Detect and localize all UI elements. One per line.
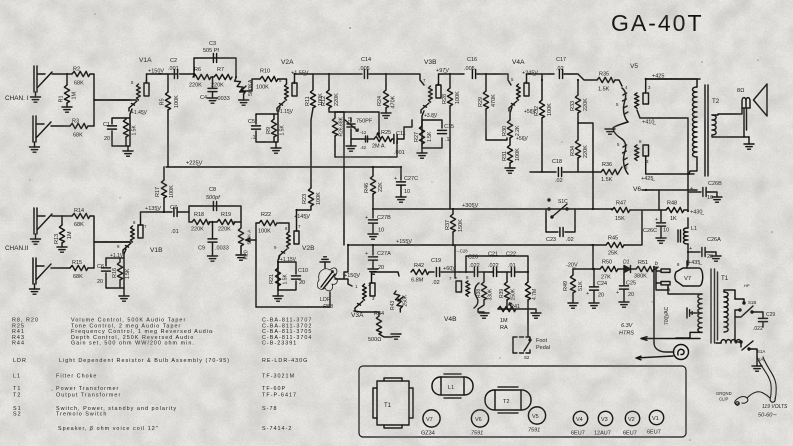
resistor R40 trem (525, 272, 538, 309)
capacitor C25 (616, 273, 636, 308)
resistor R28 (442, 74, 461, 209)
ground V3B cathode (417, 148, 427, 158)
resistor R11 (305, 74, 324, 167)
resistor R15 (70, 260, 88, 280)
wire jack1 to R2 (52, 73, 72, 75)
resistor R21 (269, 262, 289, 290)
capacitor C27A (365, 245, 391, 274)
wire R33 junction to PI (578, 123, 593, 208)
cathode network V1B (106, 249, 126, 288)
capacitor C19 (429, 258, 460, 286)
resistor R3 (70, 119, 88, 139)
resistor R6 (189, 67, 211, 89)
jack J1 input (31, 66, 53, 102)
ground V1B cathode (110, 253, 129, 301)
potentiometer R8 500KA (234, 77, 254, 105)
resistor R23 (302, 167, 322, 206)
resistor R10 (256, 69, 278, 91)
resistor R39 trem (499, 272, 517, 309)
capacitor C11 (392, 120, 412, 156)
resistor R45 (591, 211, 642, 257)
T1 heater winding (716, 340, 741, 347)
jack J3 input (31, 208, 53, 244)
wire phase net top (466, 256, 528, 272)
capacitor C27C (394, 167, 418, 202)
ground R38 (478, 312, 489, 318)
paper noise (0, 0, 1, 1)
tube V2A (277, 59, 309, 111)
wire V5 plate to +425 (646, 79, 700, 93)
wire R22 to V2B grid (277, 223, 289, 232)
wire R15 to bus2 (88, 267, 94, 269)
wire V1A plate up (146, 74, 148, 83)
resistor R36 (601, 162, 622, 183)
wire caps chain (460, 271, 528, 273)
node 6.3V HTRS (619, 323, 700, 340)
resistor R12 (321, 74, 344, 112)
wire LDR bottom line (256, 292, 330, 307)
tube V5 power (616, 63, 651, 122)
resistor R38 trem (476, 272, 494, 312)
resistor R17 (155, 167, 175, 212)
wire jack3 to R14 (52, 215, 72, 217)
resistor R32 (534, 74, 553, 172)
capacitor C17 (556, 57, 597, 80)
tube V7 chassis (421, 410, 440, 437)
node ground clip (716, 391, 770, 405)
L1 chassis (432, 374, 473, 398)
node 119 volts (757, 357, 788, 419)
potentiometer R43 250K (390, 290, 409, 312)
resistor R19 (217, 212, 235, 233)
cathode network V2A (256, 107, 280, 142)
capacitor C27B (365, 209, 391, 239)
capacitor C16 (464, 57, 511, 85)
wire C3 bridge (194, 58, 236, 77)
resistor R24 (377, 74, 397, 109)
capacitor C26C (643, 210, 669, 243)
tube V4B (444, 275, 479, 323)
capacitor C18 (552, 159, 601, 184)
transformer T1 core (711, 269, 729, 343)
capacitor C26A (688, 237, 721, 261)
wire jack4 to R15 (51, 267, 70, 269)
capacitor C29 (752, 312, 775, 332)
resistor R42 (411, 263, 429, 284)
T1 primary winding (724, 290, 735, 332)
resistor R1 (59, 74, 78, 103)
resistor R31 (502, 138, 521, 173)
tube V6 power (617, 139, 649, 193)
wire V3B plate (439, 74, 465, 85)
tube V6 chassis (471, 410, 489, 437)
tone stack box wire (189, 206, 241, 222)
resistor R9 (266, 114, 286, 142)
resistor R18 (191, 212, 210, 233)
resistor R48 (666, 201, 688, 223)
resistor R44 gain set (354, 311, 392, 343)
ground under C13 (346, 142, 356, 151)
resistor R46 (364, 167, 384, 209)
capacitor C8 (206, 187, 220, 211)
ground under R24 (381, 108, 391, 118)
tube V4A (509, 59, 538, 111)
wire R14 to bus2 (90, 216, 94, 268)
capacitor C9 (198, 222, 229, 261)
wire V6 plate to T2 (646, 156, 694, 174)
LDR R53 assembly (317, 268, 337, 310)
capacitor C26B (688, 181, 722, 202)
wire bottom return (335, 141, 397, 157)
lamp pilot (654, 343, 689, 360)
tube V4 chassis (571, 411, 588, 436)
plates V7 (656, 267, 671, 293)
resistor R4 (123, 118, 137, 146)
ground V2A cathode (271, 109, 294, 153)
speaker 8 ohm (712, 84, 767, 137)
trimmer box wire (344, 112, 379, 137)
wire R2 to bus (90, 74, 94, 126)
wire LDR to V3A grid (335, 279, 352, 286)
wire plate node (147, 73, 178, 75)
resistor R14 (72, 208, 90, 228)
wire arrow to lamp (636, 356, 673, 360)
ground speaker (744, 137, 754, 149)
ground V2B cathode (273, 290, 283, 301)
capacitor C5 (248, 119, 261, 141)
chassis layout box (359, 366, 686, 437)
wire bus2 to V1B grid (94, 241, 130, 243)
capacitor C12 (351, 130, 374, 150)
resistor R41 freq pot (498, 303, 528, 331)
potentiometer R20 500KA (236, 222, 256, 260)
cathode network V2B (278, 255, 296, 290)
wire V6 cathode to rail (658, 190, 660, 210)
resistor R29 (478, 74, 507, 140)
tube V2B (274, 224, 315, 259)
resistor R47 (593, 201, 666, 223)
resistor R26 (332, 112, 344, 157)
capacitor C6 (97, 264, 111, 285)
wire wiper R20 to R22 (256, 223, 259, 307)
ground V5 V6 cathodes (605, 122, 628, 139)
resistor R50 (600, 260, 618, 281)
resistor R22 (258, 212, 277, 235)
wire to foot pedal (527, 309, 529, 330)
transformer T2 (646, 79, 720, 176)
wire V5 screen to bus (637, 110, 688, 211)
cathode network V1A: wire (112, 109, 132, 146)
capacitor C4 (200, 77, 230, 103)
ground R40 (528, 309, 541, 318)
resistor R7 (211, 67, 232, 89)
wire jack2 to R3 (51, 125, 70, 127)
capacitor C7 (164, 205, 189, 235)
tube V3B (421, 59, 449, 113)
ground power (752, 357, 762, 371)
ground under R1 (62, 103, 72, 112)
wire +305V rail (373, 208, 593, 210)
resistor R49 (563, 269, 584, 308)
ground R44 (391, 334, 401, 339)
ground above LDR (320, 257, 330, 268)
tube V1A (94, 57, 152, 111)
parts list table (12, 318, 312, 433)
wire V2B plate to R23 (297, 206, 312, 231)
capacitor C13 trimmer (345, 116, 373, 142)
resistor R5 (160, 74, 181, 167)
jack J2 input (30, 116, 52, 152)
wire +225V rail (166, 166, 373, 168)
potentiometer R25 2M A (372, 130, 392, 150)
wire V6 cathode line (642, 189, 697, 191)
resistor R30 (502, 107, 521, 138)
switch S2 foot pedal (513, 330, 550, 360)
tube V7 rectifier (675, 261, 703, 286)
resistor R2 (72, 67, 90, 87)
capacitor C24 (586, 269, 607, 308)
resistor R37 (445, 209, 464, 245)
switch S1C on rail (548, 199, 568, 218)
tube V3A (351, 282, 375, 319)
ground under V1A cathode (123, 110, 148, 156)
resistor R34 (570, 123, 589, 172)
switch S1B (735, 283, 756, 317)
wire rail to C27C (373, 166, 401, 168)
tube V1 chassis (647, 410, 664, 435)
capacitor C2 (168, 58, 194, 79)
capacitor C21 (488, 252, 499, 277)
jack J4 input (30, 258, 52, 294)
resistor R51 (634, 260, 658, 280)
T2 chassis (485, 387, 531, 413)
wire +155V line (348, 244, 591, 246)
wire R3 to bus (88, 125, 94, 127)
capacitor C14 (359, 57, 424, 85)
wire wiper to R10 (243, 79, 260, 91)
capacitor C10 (292, 268, 309, 286)
resistor R27 (414, 120, 433, 148)
resistor R33 (570, 80, 589, 123)
tube V1B (94, 220, 163, 254)
T1 chassis (373, 378, 413, 428)
capacitor C15 (438, 124, 455, 143)
wire V4A plate (527, 74, 555, 83)
ground under R13 (57, 243, 67, 252)
capacitor C22 (506, 252, 516, 277)
wire V3A plate out (372, 272, 400, 283)
inductor L1 choke (678, 218, 697, 265)
wire bias line (573, 245, 600, 269)
wire b column down (653, 267, 655, 343)
wire +155 down to V3A plate (344, 245, 348, 278)
capacitor C20 (468, 252, 480, 277)
tube V5 chassis (528, 407, 546, 434)
capacitor C3 (203, 41, 219, 63)
resistor R13 (54, 216, 73, 244)
wire V4B plate feed (455, 245, 456, 278)
resistor R16 (112, 258, 131, 288)
diode D1 (618, 260, 636, 273)
cathode network V3B (422, 111, 442, 148)
capacitor C23 (546, 209, 575, 243)
wire V1B plate up (141, 212, 165, 225)
T1 center tap ground (687, 308, 702, 318)
wire long vertical C13 column (343, 118, 345, 245)
capacitor C1 (103, 122, 117, 142)
T1 secondary winding (668, 286, 702, 338)
wire C18 line (530, 171, 556, 173)
resistor R35 (597, 72, 622, 93)
tube V3 chassis (594, 411, 613, 436)
tube V2 chassis (623, 411, 640, 436)
switch S1A (735, 317, 765, 362)
wire V2A plate (295, 74, 363, 83)
